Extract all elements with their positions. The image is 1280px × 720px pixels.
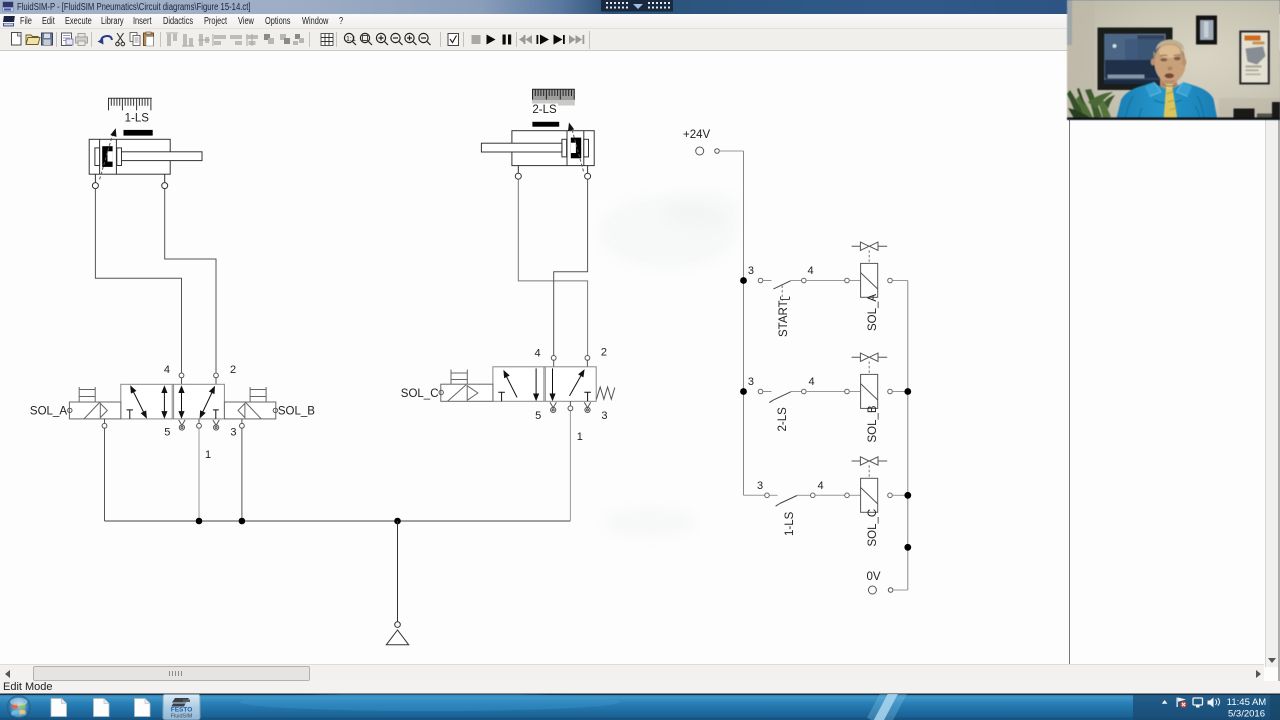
label START	[778, 300, 790, 337]
3 arrange icons	[264, 34, 304, 45]
label 0V	[866, 571, 880, 583]
label SOL_A (coil)	[867, 294, 879, 331]
+24V terminal	[696, 147, 744, 155]
svg-text:START: START	[778, 300, 790, 337]
valve V2 left position internals	[498, 368, 539, 401]
wire valve V1 port1 to supply bus	[198, 428, 200, 521]
label SOL_A	[30, 406, 67, 418]
person: collar	[1145, 82, 1192, 97]
taskbar doc icon 2	[94, 699, 110, 717]
horizontal scrollbar	[0, 664, 1264, 682]
label 3 (rung3)	[757, 480, 763, 492]
compressed air source	[386, 521, 408, 645]
node right bus lower	[904, 544, 911, 551]
svg-text:SOL_C: SOL_C	[401, 388, 439, 400]
title bar	[0, 0, 1280, 14]
node rung2 left	[740, 388, 747, 395]
coil SOL_A	[861, 263, 878, 297]
svg-text:4: 4	[817, 480, 823, 492]
play end	[554, 34, 565, 44]
svg-text:5/3/2016: 5/3/2016	[1228, 709, 1265, 720]
valve V2 right position internals	[549, 368, 591, 402]
valve V2 port 4	[534, 348, 556, 367]
system tray	[1162, 698, 1220, 708]
cylinder 1A magnet bar	[124, 130, 153, 136]
webcam overlay	[1067, 0, 1280, 120]
cylinder 2A ports	[515, 166, 590, 180]
rung3 wire left	[744, 493, 778, 498]
svg-text:11:45 AM: 11:45 AM	[1227, 697, 1267, 708]
toolbar	[0, 29, 1280, 52]
pause	[503, 34, 512, 44]
check icon	[448, 33, 459, 45]
valve V1 body (5/2-way double solenoid)	[121, 384, 225, 419]
solenoid SOL_B (right pilot)	[224, 387, 275, 419]
svg-text:SOL_C: SOL_C	[867, 509, 879, 547]
undo	[98, 36, 113, 45]
svg-text:FESTO: FESTO	[171, 707, 193, 714]
svg-text:1: 1	[577, 431, 583, 443]
SOL_A pilot port	[102, 419, 107, 428]
svg-text:5: 5	[535, 410, 541, 422]
solenoid valve symbol above SOL_A coil	[852, 242, 888, 263]
SOL_C terminal node	[439, 390, 443, 394]
taskbar doc icon 1	[51, 699, 67, 720]
svg-text:4: 4	[809, 376, 815, 388]
wire SOL_A pilot to supply bus	[104, 428, 106, 521]
valve V2 exhaust port 3	[584, 402, 607, 422]
right window border	[1278, 51, 1280, 681]
SOL_B pilot port	[240, 419, 245, 428]
zoom icons x6	[344, 33, 430, 45]
coil SOL_B	[861, 374, 878, 408]
new	[12, 32, 22, 45]
0V terminal	[868, 586, 907, 594]
label SOL_C (coil)	[867, 509, 879, 547]
label 1 (valve V2 supply)	[577, 431, 583, 443]
node rung2 right	[904, 388, 911, 395]
switch START (NO pushbutton)	[774, 281, 791, 301]
svg-text:SOL_A: SOL_A	[30, 406, 67, 418]
valve V2 port 1	[568, 401, 573, 410]
svg-text:4: 4	[807, 265, 813, 277]
solenoid SOL_C	[441, 370, 493, 402]
wire SOL_B pilot to supply bus	[241, 428, 243, 521]
valve V2 exhaust port 5	[535, 402, 556, 422]
SOL_A terminal node	[68, 408, 72, 412]
svg-text:3: 3	[757, 480, 763, 492]
label 1-LS	[784, 511, 796, 536]
person: head	[1151, 39, 1187, 86]
svg-text:0V: 0V	[866, 571, 880, 583]
cylinder 2A magnet bar	[532, 122, 559, 127]
node rung1 left	[740, 277, 747, 284]
coil SOL_C	[861, 478, 878, 512]
label +24V	[683, 129, 711, 141]
framed picture (left)	[1098, 28, 1173, 91]
label SOL_B	[278, 406, 315, 418]
svg-text:FluidSIM: FluidSIM	[171, 714, 193, 720]
stop	[472, 35, 481, 44]
svg-text:5: 5	[164, 427, 170, 439]
cylinder 1A body	[89, 139, 202, 174]
print (disabled)	[76, 33, 88, 45]
switch 2-LS (limit switch NO)	[769, 392, 791, 403]
valve V1 exhaust port 5	[164, 420, 185, 439]
label SOL_B (coil)	[867, 405, 879, 442]
valve V1 exhaust port 3	[213, 420, 237, 439]
rung1 wire right	[888, 278, 908, 283]
svg-text:2-LS: 2-LS	[777, 407, 789, 432]
cylinder 2A ruler scale (gray)	[532, 89, 575, 106]
page-setup	[62, 33, 74, 46]
taskbar doc icon 3	[135, 699, 151, 717]
label 4 (rung1)	[807, 265, 813, 277]
svg-text:4: 4	[534, 348, 540, 360]
person: tie	[1164, 84, 1178, 120]
rung3 wire middle	[797, 493, 861, 498]
rung1 wire left	[758, 278, 771, 283]
cylinder 1A ruler scale	[108, 98, 152, 110]
cylinder 1A ports	[92, 174, 167, 188]
svg-text:SOL_B: SOL_B	[867, 405, 879, 442]
solenoid valve symbol above SOL_B coil	[852, 353, 888, 374]
valve V1 left position internals	[127, 384, 168, 420]
svg-text:3: 3	[748, 376, 754, 388]
cut	[116, 33, 125, 46]
label 4 (rung2)	[809, 376, 815, 388]
wire valve V2 port1 to supply bus	[569, 411, 571, 521]
valve V1 right position internals	[178, 384, 218, 419]
step play	[537, 34, 550, 44]
6 align icons (disabled gray)	[166, 33, 258, 46]
wire cyl2A left port to valve V2 port 2	[518, 179, 587, 355]
svg-text:2: 2	[601, 347, 607, 359]
label SOL_C	[401, 388, 439, 400]
grid	[321, 33, 333, 45]
copy	[130, 32, 140, 45]
open	[26, 35, 40, 45]
valve V1 port 2	[214, 364, 236, 384]
paste	[144, 32, 154, 46]
rung1 wire middle	[791, 278, 861, 283]
svg-text:3: 3	[748, 265, 754, 277]
poster (right)	[1240, 32, 1269, 84]
svg-text:3: 3	[230, 427, 236, 439]
wire cyl2A right port to valve V2 port 4	[554, 179, 588, 355]
person: shirt	[1116, 82, 1218, 120]
start orb	[7, 695, 31, 719]
FluidSIM taskbar button (active)	[163, 695, 200, 720]
rung2 wire left	[758, 389, 771, 394]
label 3 (rung2)	[748, 376, 754, 388]
SOL_B terminal node	[273, 408, 277, 412]
vertical scrollbar	[1265, 51, 1279, 667]
svg-text:3: 3	[601, 410, 607, 422]
rung2 wire right	[888, 389, 908, 394]
cylinder 2A actuation arrow	[566, 122, 584, 172]
valve V1 port 4	[164, 364, 184, 384]
svg-text:SOL_B: SOL_B	[278, 406, 315, 418]
label 2-LS	[777, 407, 789, 432]
wire cyl1A left port to valve port 4	[95, 189, 181, 373]
cylinder 1A actuation arrow	[100, 127, 119, 179]
svg-text:4: 4	[164, 364, 170, 376]
supply bus wire	[105, 520, 571, 522]
status bar	[0, 681, 1280, 694]
dotted badge	[601, 0, 673, 12]
solenoid SOL_A (left pilot)	[69, 387, 120, 419]
label 1 (supply line)	[205, 449, 211, 461]
label 1-LS	[125, 113, 150, 125]
ffwd (gray)	[569, 35, 584, 44]
dark objects bottom right	[1234, 102, 1280, 120]
rung2 wire middle	[791, 389, 861, 394]
media: prev (gray)	[519, 35, 532, 44]
valve V2 return spring	[596, 387, 614, 399]
svg-text:1:1: 1:1	[346, 36, 356, 43]
label 3 (rung1)	[748, 265, 754, 277]
rung3 wire right	[888, 493, 908, 498]
svg-text:1: 1	[205, 449, 211, 461]
app icon	[2, 1, 14, 12]
svg-text:2: 2	[230, 364, 236, 376]
svg-text:+24V: +24V	[683, 129, 711, 141]
wire cyl1A right port to valve port 2	[165, 189, 216, 373]
small frame (top middle)	[1196, 16, 1217, 45]
plant	[1067, 88, 1115, 120]
svg-text:1-LS: 1-LS	[784, 511, 796, 536]
valve V2 body (5/2-way single solenoid)	[493, 367, 596, 402]
menu bar	[0, 14, 1280, 29]
solenoid valve symbol above SOL_C coil	[852, 457, 888, 478]
switch 1-LS (limit switch NO)	[776, 496, 797, 507]
svg-text:SOL_A: SOL_A	[867, 294, 879, 331]
label 2-LS	[530, 104, 558, 117]
label 4 (rung3)	[817, 480, 823, 492]
bottom edge strip	[1067, 117, 1280, 120]
junction dots on supply bus	[196, 518, 401, 525]
left bus wire	[743, 151, 745, 495]
save	[42, 33, 53, 45]
page border line	[1069, 120, 1070, 664]
svg-text:2-LS: 2-LS	[532, 104, 557, 116]
person: neck	[1160, 72, 1177, 89]
right bus wire	[907, 281, 909, 591]
play	[487, 34, 496, 44]
svg-text:1-LS: 1-LS	[125, 113, 150, 125]
valve V2 port 2	[585, 347, 607, 367]
taskbar	[0, 694, 1280, 720]
valve V1 port 1	[197, 419, 202, 428]
node rung3 right	[904, 492, 911, 499]
cylinder 2A body	[481, 131, 594, 166]
